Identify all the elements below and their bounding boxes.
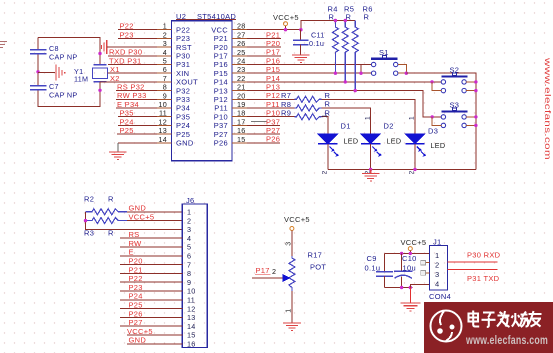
svg-text:P20: P20: [214, 43, 228, 52]
svg-text:VCC+5: VCC+5: [273, 13, 299, 22]
wire P25 left: [117, 133, 157, 135]
svg-text:X1: X1: [110, 65, 120, 74]
node S2 right rail bottom: [474, 89, 477, 92]
svg-text:GND: GND: [129, 204, 147, 213]
wire P21 to J6 pin8: [120, 272, 182, 274]
wire P30 RXD from J1 pin2: [448, 261, 498, 263]
svg-text:P15: P15: [266, 65, 280, 74]
wire X2 crystal to chip: [100, 81, 157, 83]
svg-text:VCC+5: VCC+5: [127, 327, 153, 336]
switch S1: [371, 48, 398, 75]
wire VCC+5 to J6 pin2: [127, 220, 182, 222]
wire J1 pin2 stub: [425, 262, 429, 264]
wire D2 cathode: [370, 144, 372, 170]
svg-text:CAP NP: CAP NP: [49, 53, 77, 62]
node S1 right junction: [405, 72, 408, 75]
svg-text:CON4: CON4: [429, 292, 451, 301]
svg-text:C9: C9: [367, 254, 377, 263]
svg-text:P26: P26: [266, 135, 280, 144]
svg-text:P25: P25: [129, 301, 143, 310]
capacitor C7: [30, 82, 77, 100]
svg-text:5: 5: [187, 243, 191, 252]
wire P24 left: [118, 124, 157, 126]
wire X1 crystal to chip: [108, 72, 158, 74]
svg-text:POT: POT: [310, 263, 326, 272]
wire P27 right: [247, 133, 280, 135]
wire P32 left: [116, 90, 157, 92]
wire J1 pin4 jog: [410, 284, 429, 287]
connector J1 CON4: [429, 238, 451, 302]
LED D3: [405, 126, 445, 156]
node R4 bottom on P15: [334, 72, 337, 75]
wire E to J6 pin6: [120, 255, 182, 257]
svg-text:RW P33: RW P33: [117, 91, 147, 100]
wire RS to J6 pin4: [120, 237, 182, 239]
node S3 right rail top: [474, 115, 477, 118]
svg-text:LED: LED: [387, 137, 402, 146]
wire D3 cathode: [414, 144, 416, 170]
U2 left pin names: [176, 25, 198, 147]
node VCC port junction J1: [409, 252, 412, 255]
wire VCC pin28: [247, 21, 355, 30]
ground rotated at RST pin: [102, 40, 107, 54]
svg-text:P27: P27: [266, 126, 280, 135]
ground C11: [292, 55, 310, 62]
svg-text:P34: P34: [176, 104, 190, 113]
svg-text:R: R: [364, 13, 370, 22]
LED D1: [318, 122, 358, 157]
svg-text:P23: P23: [129, 283, 143, 292]
svg-text:RS: RS: [129, 230, 140, 239]
svg-text:RS P32: RS P32: [117, 83, 145, 92]
svg-text:6: 6: [187, 252, 191, 261]
svg-text:P17: P17: [266, 48, 280, 57]
capacitor C10 10u: [394, 254, 417, 288]
svg-text:1: 1: [409, 116, 416, 120]
wire S3 right stubs: [466, 117, 476, 126]
wire S1 left jog: [360, 65, 362, 74]
wire S1 to right rail: [406, 73, 476, 169]
svg-text:D1: D1: [341, 122, 351, 131]
U2 right pin numbers 28-15: [237, 22, 246, 144]
switch S2: [441, 66, 467, 93]
wire RW to J6 pin5: [120, 246, 182, 248]
wire R2 R3 left junction to J6 pin3: [86, 212, 183, 230]
wire S2 left jog: [432, 82, 441, 91]
wire P10 right: [247, 116, 295, 118]
svg-text:1: 1: [364, 116, 371, 120]
svg-text:E P34: E P34: [117, 100, 139, 109]
power VCC+5 top port: [273, 13, 299, 30]
svg-text:P37: P37: [214, 121, 228, 130]
node crystal bottom junction: [98, 89, 101, 92]
svg-text:R8: R8: [281, 100, 291, 109]
node ground stem junction: [409, 286, 412, 289]
wire crystal left rail: [38, 38, 100, 107]
svg-text:3: 3: [285, 242, 292, 246]
svg-text:P11: P11: [214, 104, 228, 113]
svg-text:R: R: [329, 13, 335, 22]
wire D1 cathode: [327, 144, 329, 170]
svg-text:P32: P32: [176, 86, 190, 95]
svg-text:P31: P31: [176, 60, 190, 69]
wire ground stem J1: [409, 288, 411, 303]
potentiometer R17 POT: [252, 251, 326, 292]
svg-text:P22: P22: [129, 274, 143, 283]
svg-text:P16: P16: [214, 60, 228, 69]
svg-text:4: 4: [187, 234, 191, 243]
svg-text:P25: P25: [120, 126, 134, 135]
svg-text:2: 2: [272, 267, 276, 276]
svg-text:VCC+5: VCC+5: [284, 215, 310, 224]
svg-text:P12: P12: [266, 91, 280, 100]
svg-text:P14: P14: [214, 78, 228, 87]
wire P11 right: [247, 107, 295, 109]
svg-text:1: 1: [187, 208, 191, 217]
wire P15 right: [247, 72, 372, 74]
ground chip pin14: [109, 152, 127, 159]
wire GND pin14: [118, 142, 157, 144]
node R2 R3 junction: [84, 219, 87, 222]
svg-text:P25: P25: [176, 130, 190, 139]
wire S3 left jog: [432, 117, 441, 126]
svg-text:VCC+5: VCC+5: [401, 238, 427, 247]
svg-text:P20: P20: [129, 257, 143, 266]
svg-text:RXD P30: RXD P30: [109, 48, 142, 57]
svg-text:9: 9: [187, 278, 191, 287]
resistor R7: [281, 91, 331, 102]
svg-text:14: 14: [187, 322, 196, 331]
node R4 top: [334, 19, 337, 22]
wire P30 left: [108, 55, 157, 57]
svg-text:P11: P11: [266, 100, 280, 109]
net label P17 wiper with pin 2: [255, 266, 276, 276]
svg-text:P30: P30: [176, 52, 190, 61]
ground C9 C10: [400, 303, 420, 311]
wire D2 anode from P11 row: [322, 108, 371, 134]
svg-text:1: 1: [322, 114, 329, 118]
svg-text:P30 RXD: P30 RXD: [467, 251, 501, 260]
wire C9 C10 bottom rail: [385, 287, 413, 289]
svg-text:P14: P14: [266, 74, 280, 83]
svg-text:8: 8: [187, 269, 191, 278]
wire P31 TXD from J1 pin3: [448, 269, 498, 271]
svg-text:P24: P24: [120, 117, 134, 126]
svg-text:P24: P24: [176, 121, 190, 130]
wire R17 bottom: [291, 291, 293, 323]
svg-text:P26: P26: [129, 309, 143, 318]
wire P20 to J6 pin7: [120, 264, 182, 266]
svg-text:P24: P24: [129, 292, 143, 301]
svg-text:LED: LED: [431, 141, 446, 150]
switch S3: [441, 101, 467, 128]
svg-text:R7: R7: [281, 91, 291, 100]
resistor R4: [328, 5, 339, 74]
svg-text:P27: P27: [214, 130, 228, 139]
resistor R6: [352, 5, 372, 91]
wire P27 to J6 pin14: [120, 325, 182, 327]
wire P21 right: [247, 37, 281, 39]
svg-text:R: R: [325, 100, 331, 109]
wire GND to J6 pin16: [127, 343, 182, 345]
wire P22 left: [118, 29, 157, 31]
svg-text:LED: LED: [344, 137, 359, 146]
wire D1 anode from P10 row: [322, 117, 328, 134]
resistor R3: [84, 218, 127, 238]
node R5 top: [344, 19, 347, 22]
node S3 right rail bottom: [474, 124, 477, 127]
wire P17 right: [247, 55, 281, 57]
wire P23 left: [118, 37, 157, 39]
svg-text:R17: R17: [308, 251, 323, 260]
LED D2: [361, 122, 401, 157]
node R6 bottom on P13: [354, 89, 357, 92]
svg-text:RST: RST: [176, 43, 192, 52]
J1 pin2 pad square: [421, 260, 426, 265]
svg-text:3: 3: [187, 225, 191, 234]
svg-text:P35: P35: [120, 109, 134, 118]
node D2 cathode junction: [369, 168, 372, 171]
node D3 cathode junction: [413, 168, 416, 171]
svg-text:P16: P16: [266, 56, 280, 65]
resistor R9: [281, 108, 331, 119]
wire P13 right: [247, 91, 441, 117]
svg-text:P10: P10: [266, 109, 280, 118]
node C8-C7 junction: [36, 70, 39, 73]
svg-text:P35: P35: [176, 112, 190, 121]
svg-text:11: 11: [187, 296, 195, 305]
wire VCC rail to J1 pin1: [385, 253, 430, 255]
svg-text:P37: P37: [266, 117, 280, 126]
svg-text:CAP NP: CAP NP: [49, 91, 77, 100]
wire P25 to J6 pin12: [120, 308, 182, 310]
wire RST to rotated ground: [107, 46, 157, 48]
svg-text:0.1u: 0.1u: [309, 39, 324, 48]
svg-text:P13: P13: [266, 83, 280, 92]
U2 left pin stubs: [157, 30, 172, 143]
capacitor C8: [30, 44, 77, 62]
svg-text:P22: P22: [176, 25, 190, 34]
svg-text:R2: R2: [84, 195, 94, 204]
wire S1 right side: [398, 65, 407, 74]
wire LED cathode rail: [328, 168, 476, 170]
svg-text:P13: P13: [214, 86, 228, 95]
wire P20 right: [247, 46, 281, 48]
svg-text:3: 3: [435, 270, 439, 279]
node S2 right rail top: [474, 80, 477, 83]
svg-text:VCC: VCC: [211, 25, 228, 34]
IC U2 ST5410AD: [172, 12, 237, 161]
node RST area junction: [98, 52, 101, 55]
wire P26 right: [247, 142, 280, 144]
svg-text:C10: C10: [402, 254, 417, 263]
node C10 top junction: [400, 252, 403, 255]
svg-text:VCC+5: VCC+5: [129, 213, 155, 222]
wire P35 left: [118, 116, 157, 118]
svg-text:1: 1: [435, 251, 439, 260]
svg-text:R: R: [108, 195, 114, 204]
svg-text:P22: P22: [120, 22, 134, 31]
J1 pin3 pad square: [421, 271, 426, 276]
svg-text:2: 2: [187, 216, 191, 225]
svg-text:2: 2: [435, 261, 439, 270]
svg-text:P33: P33: [176, 95, 190, 104]
svg-text:1: 1: [285, 309, 292, 313]
connector J6: [182, 196, 207, 348]
power VCC+5 port at R17: [284, 215, 310, 256]
wire P14 right: [247, 81, 441, 83]
svg-text:GND: GND: [129, 336, 147, 345]
wire P37 right: [247, 124, 280, 126]
wire P26 to J6 pin13: [120, 316, 182, 318]
wire P34 left: [116, 107, 157, 109]
J1 pin numbers 1-4: [435, 251, 439, 289]
svg-text:GND: GND: [176, 139, 194, 148]
svg-text:16: 16: [187, 340, 196, 349]
capacitor C9 0.1u: [365, 254, 394, 288]
crystal Y1 11M: [74, 65, 108, 91]
node VCC port junction: [284, 28, 287, 31]
resistor R5: [342, 5, 354, 82]
node S1 left jog junction: [359, 72, 362, 75]
svg-text:P27: P27: [129, 318, 143, 327]
svg-text:P12: P12: [214, 95, 228, 104]
svg-text:P21: P21: [266, 30, 280, 39]
svg-text:P17: P17: [214, 52, 228, 61]
svg-text:XIN: XIN: [176, 69, 189, 78]
svg-text:D2: D2: [384, 122, 394, 131]
resistor R8: [281, 100, 331, 111]
net label P37 with strikeline: [251, 117, 280, 126]
svg-text:7: 7: [187, 260, 191, 269]
svg-text:15: 15: [187, 331, 196, 340]
wire GND to J6 pin1: [127, 211, 182, 213]
svg-text:4: 4: [435, 280, 439, 289]
svg-text:13: 13: [187, 313, 196, 322]
wire junction to ground: [38, 72, 55, 74]
svg-text:10: 10: [187, 287, 196, 296]
node C11 junction: [299, 28, 302, 31]
U2 right pin names: [211, 25, 228, 147]
node C10 bottom junction: [400, 286, 403, 289]
watermark badge elecfans: [424, 302, 553, 353]
wire P24 to J6 pin11: [120, 299, 182, 301]
U2 right pin stubs: [232, 30, 247, 143]
wire P23 to J6 pin10: [120, 290, 182, 292]
node S2 left junction: [430, 80, 433, 83]
svg-text:RW: RW: [129, 239, 143, 248]
wire J1 pin3 stub: [425, 272, 429, 274]
svg-text:P23: P23: [176, 34, 190, 43]
ground R17: [283, 323, 301, 330]
ground LED rail: [362, 169, 380, 181]
svg-text:TXD P31: TXD P31: [109, 56, 142, 65]
svg-text:www.elecfans.com: www.elecfans.com: [465, 335, 548, 347]
svg-text:www.elecfans.com: www.elecfans.com: [543, 57, 553, 160]
svg-text:P31 TXD: P31 TXD: [467, 274, 500, 283]
svg-text:P15: P15: [214, 69, 228, 78]
svg-text:12: 12: [187, 304, 196, 313]
resistor R2: [84, 195, 127, 215]
svg-text:R9: R9: [281, 109, 291, 118]
node R5 bottom on P14: [344, 80, 347, 83]
power VCC+5 port at J1: [401, 238, 427, 254]
svg-text:E: E: [129, 248, 134, 257]
sheet edge mark: [0, 42, 7, 48]
svg-text:11M: 11M: [74, 75, 88, 84]
svg-text:P20: P20: [266, 39, 280, 48]
wire P12 right: [247, 98, 295, 100]
svg-text:P21: P21: [214, 34, 228, 43]
svg-text:X2: X2: [110, 74, 120, 83]
svg-text:D3: D3: [428, 126, 438, 135]
capacitor C11 0.1u: [293, 30, 325, 55]
svg-text:P23: P23: [120, 30, 134, 39]
svg-text:R: R: [325, 91, 331, 100]
svg-text:XOUT: XOUT: [176, 78, 198, 87]
svg-text:P21: P21: [129, 265, 143, 274]
svg-text:P26: P26: [214, 139, 228, 148]
wire P22 to J6 pin9: [120, 281, 182, 283]
wire S2 right stubs: [466, 82, 476, 91]
J6 pin numbers 1-16: [187, 208, 196, 349]
node S3 left junction: [431, 115, 434, 118]
svg-text:2: 2: [322, 170, 329, 174]
wire P31 left: [108, 64, 157, 66]
U2 left pin numbers 1-14: [158, 22, 167, 144]
wire P16 right: [247, 64, 372, 66]
wire VCC+5 to J6 pin15: [127, 334, 182, 336]
wire D3 anode from P12 row: [322, 99, 415, 134]
ground rotated at crystal caps midpoint: [56, 65, 65, 81]
svg-text:P10: P10: [214, 112, 228, 121]
wire P33 left: [116, 98, 157, 100]
svg-text:P17: P17: [256, 266, 270, 275]
